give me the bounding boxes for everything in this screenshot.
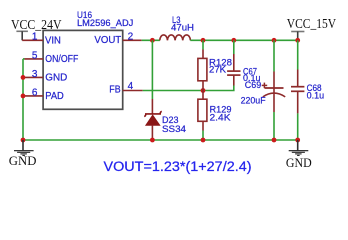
node: R128 top bbox=[201, 38, 206, 43]
node: C68 / VCC_15V bbox=[295, 38, 300, 43]
svg-text:27K: 27K bbox=[209, 64, 227, 75]
node: FB / R128 / R129 bbox=[201, 88, 206, 93]
svg-text:SS34: SS34 bbox=[162, 124, 186, 135]
capacitor C68 bbox=[291, 40, 324, 140]
wire: FB net bbox=[143, 86, 234, 91]
svg-text:220uF: 220uF bbox=[241, 96, 266, 107]
svg-text:1: 1 bbox=[32, 32, 38, 43]
svg-text:2.4K: 2.4K bbox=[210, 112, 232, 123]
pin 5 ON/OFF bbox=[25, 50, 79, 65]
svg-text:2: 2 bbox=[128, 32, 134, 43]
pin 3 GND bbox=[25, 69, 68, 84]
svg-text:C69: C69 bbox=[245, 80, 261, 91]
node: C69 top bbox=[272, 38, 277, 43]
pin 2 VOUT bbox=[94, 32, 141, 47]
node: VOUT / diode junction bbox=[150, 38, 155, 43]
svg-text:GND: GND bbox=[45, 73, 67, 84]
svg-text:47uH: 47uH bbox=[171, 22, 194, 33]
pin 4 FB bbox=[109, 81, 142, 96]
wire: inductor to VCC_15V top rail bbox=[190, 39, 297, 41]
svg-text:VCC_15V: VCC_15V bbox=[287, 16, 336, 31]
svg-text:GND: GND bbox=[9, 153, 37, 168]
capacitor C69 (electrolytic) bbox=[241, 40, 286, 140]
node: C68 / ground rail end bbox=[295, 138, 300, 143]
node: pin6 to rail bbox=[21, 94, 26, 99]
inductor L3 bbox=[160, 15, 194, 41]
wire: left vertical rail bbox=[22, 59, 24, 140]
svg-text:6: 6 bbox=[32, 87, 38, 98]
pin 1 VIN bbox=[22, 32, 61, 47]
svg-text:0.1u: 0.1u bbox=[307, 91, 325, 102]
diode D23 bbox=[144, 99, 186, 140]
resistor R129 bbox=[198, 91, 232, 141]
svg-text:GND: GND bbox=[286, 155, 312, 170]
svg-text:4: 4 bbox=[128, 81, 134, 92]
svg-text:3: 3 bbox=[32, 69, 38, 80]
pin 6 PAD bbox=[25, 87, 64, 102]
node: diode to ground rail bbox=[150, 138, 155, 143]
svg-text:LM2596_ADJ: LM2596_ADJ bbox=[77, 18, 134, 29]
node: pin3 to rail bbox=[21, 75, 26, 80]
power flag VCC_15V bbox=[287, 16, 336, 40]
wire: bottom ground rail bbox=[23, 139, 298, 141]
node: left rail to ground bbox=[21, 138, 26, 143]
svg-text:PAD: PAD bbox=[45, 91, 64, 102]
capacitor C67 bbox=[227, 40, 260, 85]
power flag VCC_24V bbox=[11, 17, 62, 40]
svg-text:FB: FB bbox=[109, 85, 121, 96]
svg-text:ON/OFF: ON/OFF bbox=[45, 54, 78, 65]
IC U16 LM2596_ADJ bbox=[43, 10, 133, 110]
svg-text:VOUT: VOUT bbox=[94, 35, 121, 46]
resistor R128 bbox=[198, 40, 232, 90]
node: R129 to ground rail bbox=[201, 138, 206, 143]
svg-text:VIN: VIN bbox=[45, 35, 61, 46]
wire: ON/OFF elbow down left rail bbox=[23, 58, 25, 60]
ground GND left bbox=[9, 140, 37, 168]
svg-text:5: 5 bbox=[32, 50, 38, 61]
svg-text:VOUT=1.23*(1+27/2.4): VOUT=1.23*(1+27/2.4) bbox=[104, 159, 252, 174]
ground GND right bbox=[286, 140, 312, 170]
node: C67 top bbox=[231, 38, 236, 43]
wire: diode column upper bbox=[151, 40, 153, 99]
node: C69 to ground rail bbox=[272, 138, 277, 143]
wire: VOUT to inductor bbox=[142, 39, 160, 41]
